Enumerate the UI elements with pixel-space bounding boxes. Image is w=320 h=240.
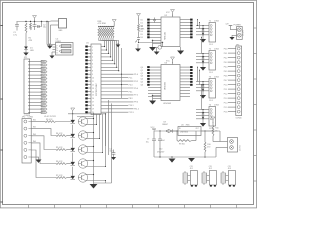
svg-text:C7: C7	[147, 139, 149, 141]
svg-text:Q2: Q2	[141, 73, 143, 75]
svg-text:D0: D0	[141, 19, 143, 21]
ground opto	[90, 183, 98, 189]
resistor network RN1	[98, 21, 115, 38]
svg-text:P1.0: P1.0	[134, 74, 138, 76]
svg-text:Q6: Q6	[141, 85, 143, 87]
diode D8	[162, 121, 178, 132]
svg-text:7: 7	[92, 67, 93, 69]
resistor R8	[138, 24, 146, 32]
svg-text:P0.4: P0.4	[41, 102, 44, 104]
connector T1 with protection diodes D3	[202, 21, 219, 46]
power VCC PS	[151, 127, 157, 131]
svg-text:P8.3: P8.3	[129, 98, 133, 100]
label U3 type	[163, 103, 171, 105]
svg-text:10: 10	[92, 77, 94, 79]
svg-text:470u/16V: 470u/16V	[157, 152, 165, 154]
svg-text:P0.7: P0.7	[224, 80, 228, 82]
wire crystal left legs	[49, 21, 51, 44]
capacitor C8	[158, 131, 164, 157]
svg-text:P11.2: P11.2	[134, 109, 139, 111]
svg-text:P1.3: P1.3	[41, 99, 44, 101]
svg-text:D5: D5	[141, 34, 143, 36]
crystal Y1 box	[59, 19, 67, 33]
ground crystal	[47, 44, 53, 49]
ground T1	[200, 39, 206, 43]
svg-text:Q5: Q5	[141, 82, 143, 84]
connector T2 with protection diodes D4	[202, 49, 219, 74]
IC U2 buffer	[147, 15, 192, 47]
ground CON6 return	[36, 160, 42, 163]
svg-text:P0.0: P0.0	[41, 88, 44, 90]
svg-text:P7.2: P7.2	[134, 95, 138, 97]
wire to CN2	[213, 142, 228, 158]
svg-text:P1.1: P1.1	[41, 65, 44, 67]
svg-text:16: 16	[92, 98, 94, 100]
wire to T1	[0, 0, 1, 1]
power VCC U2	[166, 10, 175, 18]
svg-text:IN3: IN3	[33, 134, 36, 136]
svg-text:U5-U9 TLP521: U5-U9 TLP521	[44, 116, 56, 118]
svg-text:CZ-4: CZ-4	[209, 100, 213, 102]
svg-text:CON16: CON16	[236, 118, 242, 120]
svg-text:P1.0: P1.0	[224, 84, 228, 86]
svg-text:P0.3: P0.3	[224, 62, 228, 64]
svg-text:P1.2: P1.2	[224, 93, 228, 95]
svg-text:R6 4.7K: R6 4.7K	[56, 161, 63, 163]
ground T2	[200, 67, 206, 71]
svg-text:P3.2: P3.2	[134, 81, 138, 83]
power VCC opto rail	[71, 108, 75, 114]
label R11	[215, 128, 218, 133]
ground USB	[49, 52, 54, 59]
ground C6	[154, 47, 160, 55]
resistor R11	[212, 124, 214, 142]
svg-text:P2.1: P2.1	[129, 77, 133, 79]
svg-text:4.7K RN8: 4.7K RN8	[98, 23, 106, 25]
wire top-left rail	[17, 21, 51, 22]
capacitor C6	[157, 43, 163, 50]
capacitor C5	[110, 148, 117, 160]
svg-text:P0.6: P0.6	[41, 82, 44, 84]
connector USB J2	[56, 39, 74, 55]
svg-text:R11: R11	[215, 128, 218, 130]
wire long net vertical	[121, 48, 122, 98]
power VCC R2 rail	[137, 14, 141, 25]
svg-text:DC12V: DC12V	[243, 29, 245, 36]
wire U2 U3 outputs to connectors	[196, 19, 203, 119]
svg-text:P0.2: P0.2	[41, 68, 44, 70]
svg-text:P1.5: P1.5	[41, 105, 44, 107]
power VCC CN1	[226, 24, 237, 30]
svg-text:D6: D6	[141, 37, 143, 39]
svg-text:P9.0: P9.0	[134, 102, 138, 104]
svg-text:P0.0: P0.0	[224, 48, 228, 50]
svg-text:P1.3: P1.3	[41, 71, 44, 73]
svg-text:3: 3	[92, 53, 93, 55]
svg-text:P1.6: P1.6	[224, 111, 228, 113]
connector JP1 header	[24, 57, 47, 117]
svg-text:USB1: USB1	[56, 41, 62, 43]
svg-text:D3: D3	[141, 28, 143, 30]
wire P0 pull-up bus	[99, 38, 119, 71]
svg-text:ULN2003: ULN2003	[165, 82, 167, 90]
IC U3 driver	[147, 62, 192, 100]
svg-text:17: 17	[92, 102, 94, 104]
wire U3 input net labels	[141, 67, 143, 87]
svg-text:5: 5	[92, 60, 93, 62]
svg-text:4.7u: 4.7u	[13, 34, 17, 36]
power VCC at RN1	[112, 20, 116, 27]
svg-text:P1.7: P1.7	[41, 85, 44, 87]
wire to reset	[46, 22, 48, 45]
wire crystal pins	[51, 21, 59, 25]
svg-text:R5 4.7K: R5 4.7K	[56, 147, 63, 149]
optocoupler U6	[71, 125, 100, 141]
svg-text:D2: D2	[141, 25, 143, 27]
svg-text:P1.5: P1.5	[41, 78, 44, 80]
connector CN2 terminal	[228, 138, 242, 153]
resistor R2	[29, 23, 33, 42]
svg-text:P0.4: P0.4	[224, 66, 228, 68]
svg-text:10u: 10u	[43, 27, 46, 29]
svg-text:VCC: VCC	[151, 127, 156, 129]
svg-text:P1.7: P1.7	[41, 112, 44, 114]
svg-text:19: 19	[92, 109, 94, 111]
svg-text:U4: U4	[181, 124, 183, 126]
svg-text:JD2: JD2	[209, 168, 212, 170]
resonator X3	[221, 166, 235, 186]
svg-text:P0.2: P0.2	[41, 95, 44, 97]
svg-text:P1.4: P1.4	[224, 102, 228, 104]
svg-text:C10: C10	[159, 149, 162, 151]
svg-text:JD3: JD3	[228, 168, 231, 170]
wire U2 enable pins	[152, 40, 161, 47]
wire PS rail	[154, 130, 213, 131]
svg-text:LED: LED	[30, 50, 34, 52]
resistor R9	[177, 131, 196, 146]
svg-text:P0.6: P0.6	[224, 75, 228, 77]
wire to T3	[0, 0, 1, 1]
svg-text:9: 9	[92, 74, 93, 76]
svg-text:P0.0: P0.0	[41, 61, 44, 63]
ground T3	[200, 95, 206, 99]
connector POWER terminal CN1	[234, 25, 245, 40]
svg-text:JD1: JD1	[190, 168, 193, 170]
voltage regulator U4	[178, 124, 201, 135]
ground T4	[200, 123, 206, 127]
svg-text:11: 11	[92, 81, 94, 83]
ground Q1	[135, 44, 141, 52]
svg-text:IN: IN	[179, 128, 181, 130]
svg-text:6: 6	[92, 64, 93, 66]
capacitor C2	[33, 22, 37, 31]
svg-text:D8: D8	[164, 121, 166, 123]
svg-text:R4 4.7K: R4 4.7K	[56, 133, 63, 135]
svg-text:P1.5: P1.5	[224, 107, 228, 109]
svg-text:P4.3: P4.3	[129, 84, 133, 86]
svg-text:P1.1: P1.1	[224, 89, 228, 91]
diode D2	[37, 22, 46, 29]
svg-text:14: 14	[92, 91, 94, 93]
svg-text:CZJ: CZJ	[228, 166, 231, 168]
wire CON6 input rows with series resistors	[31, 119, 73, 178]
transistor Q1	[135, 32, 140, 43]
wire gnd bus	[154, 156, 216, 157]
svg-text:R10: R10	[207, 144, 210, 146]
svg-text:13: 13	[92, 88, 94, 90]
svg-text:P0.4: P0.4	[41, 75, 44, 77]
svg-text:104: 104	[110, 150, 113, 152]
svg-text:15: 15	[92, 95, 94, 97]
svg-text:P1.1: P1.1	[41, 92, 44, 94]
ground U2	[149, 47, 156, 51]
svg-text:P0.6: P0.6	[41, 109, 44, 111]
svg-text:Q1: Q1	[141, 70, 143, 72]
ground bottom mid	[188, 158, 195, 162]
ground near U1 top	[116, 43, 121, 47]
wire to T2	[0, 0, 1, 1]
svg-text:470: 470	[207, 147, 210, 149]
wire bus to lower circuits	[105, 100, 112, 183]
svg-text:8: 8	[92, 71, 93, 73]
capacitor C7	[146, 131, 156, 157]
svg-text:CZJ: CZJ	[190, 166, 193, 168]
optocoupler U9	[71, 167, 106, 183]
svg-text:P6.1: P6.1	[129, 91, 133, 93]
power VCC U3	[166, 57, 175, 65]
svg-text:OUT5V: OUT5V	[239, 144, 241, 151]
LED D1	[24, 47, 34, 53]
wire Q1 to C6	[139, 42, 164, 43]
svg-text:P10.1: P10.1	[129, 105, 134, 107]
svg-text:7805: 7805	[186, 124, 190, 126]
wire USB pins	[47, 45, 56, 53]
svg-text:R7 4.7K: R7 4.7K	[56, 175, 63, 177]
wire U3 enable pins	[152, 95, 161, 101]
svg-text:10u: 10u	[146, 142, 149, 144]
svg-text:74HC245: 74HC245	[165, 32, 167, 40]
connector JP3 16-pin	[224, 44, 242, 119]
svg-text:2: 2	[92, 50, 93, 52]
svg-text:4: 4	[92, 57, 93, 59]
wire opto bottom	[94, 182, 112, 184]
IC U1 microcontroller body and left pins	[85, 43, 101, 115]
svg-text:12: 12	[92, 84, 94, 86]
wire U4 output	[201, 130, 220, 141]
svg-text:CZ-4: CZ-4	[209, 72, 213, 74]
svg-text:IN4: IN4	[33, 141, 36, 143]
optocoupler U5	[71, 114, 97, 126]
svg-text:Q0: Q0	[141, 67, 143, 69]
svg-text:D4: D4	[141, 31, 143, 33]
svg-text:Q4: Q4	[141, 79, 143, 81]
ground PS	[169, 157, 176, 163]
wire opto rail 2	[77, 116, 94, 118]
resistor R10	[204, 131, 210, 157]
svg-text:STC89C52RC: STC89C52RC	[96, 83, 98, 96]
power rail VCC symbol	[33, 16, 37, 22]
svg-text:Q3: Q3	[141, 76, 143, 78]
ground CN1	[229, 35, 236, 40]
svg-text:1N4007: 1N4007	[162, 124, 168, 126]
capacitor C10 label	[157, 149, 165, 154]
svg-text:R3 4.7K: R3 4.7K	[46, 119, 53, 121]
sheet border frame	[0, 0, 256, 208]
svg-text:IN2: IN2	[33, 127, 36, 129]
svg-text:ULN2003: ULN2003	[163, 103, 171, 105]
svg-text:P1.3: P1.3	[224, 98, 228, 100]
ground U2 body	[177, 47, 184, 55]
svg-text:P5.0: P5.0	[134, 88, 138, 90]
svg-text:D1: D1	[141, 22, 143, 24]
connector T3 with protection diodes D5	[202, 77, 219, 102]
wire opto collector rail	[93, 114, 94, 183]
wire U1 right port pins	[101, 74, 139, 114]
optocoupler U7	[71, 139, 103, 155]
wire opto emitter outputs	[96, 114, 106, 183]
svg-text:18: 18	[92, 105, 94, 107]
svg-text:OUT: OUT	[196, 128, 199, 130]
wire U2 input net labels	[141, 19, 143, 39]
wire opto top rail	[44, 113, 106, 118]
connector JP2 CON6	[22, 117, 33, 163]
svg-text:104: 104	[162, 140, 165, 142]
capacitor C9	[153, 18, 156, 23]
svg-text:P12.3: P12.3	[129, 112, 134, 114]
svg-text:CZ-4: CZ-4	[209, 44, 213, 46]
connector T4 with protection diodes D6	[202, 105, 219, 130]
svg-text:P0.2: P0.2	[224, 57, 228, 59]
svg-text:CZJ: CZJ	[209, 166, 212, 168]
capacitor C1	[13, 22, 19, 37]
resonator X1	[183, 166, 197, 186]
svg-text:P0.5: P0.5	[224, 71, 228, 73]
svg-text:IN1: IN1	[33, 120, 36, 122]
svg-text:LM7805: LM7805	[180, 132, 189, 134]
svg-text:R9 300: R9 300	[179, 144, 185, 146]
svg-text:1: 1	[92, 46, 93, 48]
resonator X2	[202, 166, 216, 186]
resistor R1	[25, 23, 27, 47]
svg-text:P0.1: P0.1	[224, 53, 228, 55]
power VCC out	[211, 117, 215, 124]
optocoupler U8	[71, 153, 106, 169]
ground below D1	[23, 53, 28, 56]
ground U3	[149, 101, 156, 105]
wire to T4	[0, 0, 1, 1]
